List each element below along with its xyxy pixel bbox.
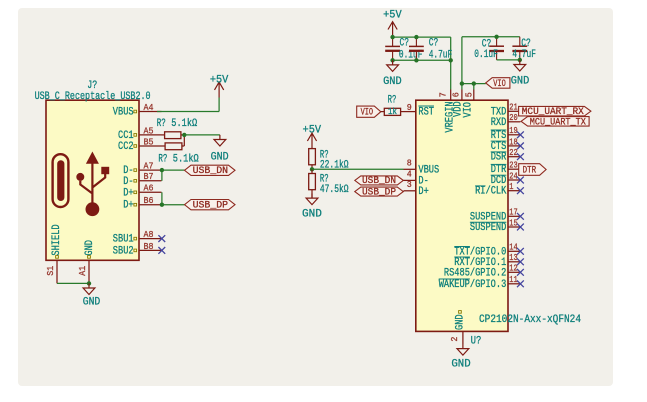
svg-text:A7: A7 <box>144 161 154 172</box>
connector J1 body <box>46 100 139 260</box>
wire +5V top rail left <box>393 36 451 38</box>
no-connect pin 18 <box>517 143 524 150</box>
svg-text:18: 18 <box>509 136 518 147</box>
svg-text:A5: A5 <box>144 125 154 136</box>
pin 15 SUSPEND of U1 <box>508 226 520 228</box>
pin S1 SHIELD of J1 <box>56 260 58 283</box>
pin B5 CC2 of J1 <box>139 145 162 147</box>
wire D- pins join <box>161 170 163 181</box>
svg-text:DTR: DTR <box>523 164 537 176</box>
svg-text:A1: A1 <box>77 266 88 276</box>
svg-text:WAKEUP/GPIO.3: WAKEUP/GPIO.3 <box>439 279 507 291</box>
pin A4 VBUS of J1 <box>139 111 162 113</box>
pin 7 VREGIN of U1 <box>450 90 452 101</box>
wire D- to label <box>162 169 185 171</box>
no-connect pin 22 <box>517 153 524 160</box>
pin 13 RXT/GPIO.1 of U1 <box>508 261 520 263</box>
global label USB_DP at chip <box>355 187 404 196</box>
no-connect pin 11 <box>517 280 524 287</box>
power +5V at capacitors <box>388 22 397 37</box>
svg-text:RST: RST <box>418 107 434 119</box>
pin 24 DCD of U1 <box>508 179 520 181</box>
svg-text:SBU2: SBU2 <box>113 245 134 257</box>
wire divider to VBUS pin 8 <box>312 168 404 170</box>
no-connect SBU1 <box>158 235 165 242</box>
svg-text:B7: B7 <box>144 171 154 182</box>
svg-text:DSR: DSR <box>491 152 507 164</box>
global label USB_DN at chip <box>355 176 404 185</box>
wire CC junction to gnd <box>184 134 220 136</box>
ground at CC resistors <box>214 135 226 146</box>
svg-text:4.7uF: 4.7uF <box>512 49 536 61</box>
svg-text:6: 6 <box>451 92 462 97</box>
junction C2 top <box>414 35 418 39</box>
svg-text:47.5kΩ: 47.5kΩ <box>320 184 349 196</box>
svg-text:VBUS: VBUS <box>113 107 134 119</box>
no-connect pin 17 <box>517 213 524 220</box>
global label USB_DP at connector <box>185 200 236 210</box>
svg-text:B5: B5 <box>144 136 154 147</box>
svg-text:15: 15 <box>509 217 518 228</box>
svg-text:GND: GND <box>83 297 101 309</box>
wire VIO net <box>462 83 486 85</box>
no-connect pin 15 <box>517 224 524 231</box>
svg-text:D+: D+ <box>123 187 133 199</box>
ground under chip <box>457 344 469 355</box>
svg-text:22: 22 <box>509 147 518 158</box>
svg-text:7: 7 <box>437 92 448 97</box>
pin B8 SBU2 of J1 <box>139 249 162 251</box>
pin 1 RI/CLK of U1 <box>508 190 520 192</box>
svg-text:GND: GND <box>511 75 530 87</box>
capacitor C2 4.7uF <box>415 37 417 46</box>
power +5V at connector <box>215 82 224 97</box>
pin 11 WAKEUP/GPIO.3 of U1 <box>508 283 520 285</box>
ground under C1 <box>387 60 399 71</box>
junction divider <box>310 167 314 171</box>
svg-text:B6: B6 <box>144 195 154 206</box>
svg-text:S1: S1 <box>45 266 56 276</box>
global label USB_DN at connector <box>185 165 236 175</box>
pin 9 RST of U1 <box>404 111 416 113</box>
wire bottom rail left caps <box>393 59 451 61</box>
wire bottom rail right caps <box>497 59 520 61</box>
svg-text:U?: U? <box>471 335 482 347</box>
svg-text:20: 20 <box>509 112 518 123</box>
pin 12 RS485/GPIO.2 of U1 <box>508 271 520 273</box>
junction CC <box>182 133 186 137</box>
svg-text:GND: GND <box>451 358 471 370</box>
svg-text:3: 3 <box>407 179 412 190</box>
junction D- <box>160 168 164 172</box>
global label MCU_UART_TX <box>521 117 589 127</box>
svg-text:5.1kΩ: 5.1kΩ <box>171 118 197 130</box>
svg-text:8: 8 <box>407 157 412 168</box>
svg-text:USB_DN: USB_DN <box>362 176 396 187</box>
pin 5 VIO of U1 <box>473 90 475 101</box>
capacitor C4 4.7uF <box>519 37 521 46</box>
no-connect pin 13 <box>517 258 524 265</box>
svg-text:RXD: RXD <box>491 117 507 129</box>
svg-text:GND: GND <box>302 209 322 221</box>
pin B7 D- of J1 <box>139 180 162 182</box>
global label MCU_UART_RX <box>519 106 591 116</box>
USB-C capsule inner <box>57 160 64 201</box>
junction D+ <box>160 203 164 207</box>
pin A8 SBU1 of J1 <box>139 238 162 240</box>
svg-text:USB_DP: USB_DP <box>362 187 396 198</box>
svg-text:A6: A6 <box>144 183 154 194</box>
global label VIO at RST <box>357 106 381 117</box>
svg-text:13: 13 <box>509 252 518 263</box>
svg-text:SUSPEND: SUSPEND <box>470 222 507 234</box>
wire D+ pins join <box>161 192 163 204</box>
svg-text:4: 4 <box>407 169 412 180</box>
svg-text:USB_DN: USB_DN <box>193 165 229 177</box>
wire R2 to junction <box>182 145 184 147</box>
svg-text:5.1kΩ: 5.1kΩ <box>173 154 199 166</box>
svg-text:A8: A8 <box>144 229 154 240</box>
pin 14 TXT/GPIO.0 of U1 <box>508 250 520 252</box>
pin 23 DTR of U1 <box>508 168 520 170</box>
svg-text:11: 11 <box>509 274 518 285</box>
svg-text:2: 2 <box>449 336 460 341</box>
svg-text:5: 5 <box>464 92 475 97</box>
pin 20 RXD of U1 <box>508 121 520 123</box>
pin A6 D+ of J1 <box>139 191 162 193</box>
wire top rail right caps <box>462 36 520 38</box>
pin B6 D+ of J1 <box>139 204 162 206</box>
pin 4 D- of U1 <box>404 179 416 181</box>
svg-text:R?: R? <box>158 154 167 166</box>
no-connect pin 12 <box>517 269 524 276</box>
wire D+ to label <box>162 204 185 206</box>
svg-text:12: 12 <box>509 263 518 274</box>
svg-text:C?: C? <box>429 38 439 50</box>
svg-text:GND: GND <box>211 152 229 164</box>
svg-text:19: 19 <box>509 125 518 136</box>
svg-text:17: 17 <box>509 207 517 218</box>
svg-text:D+: D+ <box>418 186 428 198</box>
svg-text:GND: GND <box>455 314 467 330</box>
svg-text:RS485/GPIO.2: RS485/GPIO.2 <box>444 267 506 279</box>
USB-C capsule outline <box>53 154 69 207</box>
svg-text:B8: B8 <box>144 241 154 252</box>
no-connect pin 19 <box>517 131 524 138</box>
junction C3 top <box>494 35 498 39</box>
svg-text:CP2102N-Axx-xQFN24: CP2102N-Axx-xQFN24 <box>479 314 581 326</box>
svg-text:SBU1: SBU1 <box>113 234 134 246</box>
wire shield to gnd <box>57 282 89 284</box>
wire VBUS to +5V <box>157 111 219 113</box>
USB trident logo <box>76 152 109 217</box>
svg-text:SHIELD: SHIELD <box>51 224 63 256</box>
pin A1 GND of J1 <box>88 260 90 283</box>
svg-text:1k: 1k <box>388 107 397 117</box>
junction C1 bottom <box>390 58 394 62</box>
IC U1 CP2102N body <box>416 100 508 331</box>
pin 6 VDD of U1 <box>461 90 463 101</box>
junction VIO pin <box>472 81 476 85</box>
svg-text:24: 24 <box>509 170 518 181</box>
ground under divider <box>306 194 318 205</box>
ground under connector <box>83 283 95 294</box>
pin 8 VBUS of U1 <box>404 168 416 170</box>
capacitor C3 0.1uF <box>496 37 498 46</box>
junction C1 top <box>390 35 394 39</box>
svg-text:R?: R? <box>157 118 166 130</box>
svg-text:+5V: +5V <box>383 10 402 22</box>
pin 18 CTS of U1 <box>508 145 520 147</box>
junction VDD VIO <box>460 81 464 85</box>
junction C2 bottom <box>414 58 418 62</box>
global label DTR <box>519 164 546 176</box>
no-connect SBU2 <box>158 247 165 254</box>
svg-text:GND: GND <box>84 240 96 256</box>
svg-text:D+: D+ <box>123 200 133 212</box>
svg-text:+5V: +5V <box>210 74 229 86</box>
svg-text:14: 14 <box>509 242 518 253</box>
svg-text:A4: A4 <box>144 102 154 113</box>
no-connect pin 1 <box>517 187 524 194</box>
svg-text:MCU_UART_TX: MCU_UART_TX <box>530 116 587 128</box>
junction C4 bottom <box>518 58 522 62</box>
no-connect pin 24 <box>517 177 524 184</box>
pin A5 CC1 of J1 <box>139 134 162 136</box>
svg-text:9: 9 <box>407 102 412 113</box>
pin 2 GND of U1 <box>462 331 464 344</box>
ground under C4 <box>514 60 526 71</box>
svg-text:USB_C_Receptacle_USB2.0: USB_C_Receptacle_USB2.0 <box>35 91 151 103</box>
junction VREGIN rail <box>449 58 453 62</box>
svg-text:0.1uF: 0.1uF <box>474 49 498 61</box>
svg-text:21: 21 <box>509 102 518 113</box>
svg-text:1: 1 <box>509 181 513 192</box>
svg-text:C?: C? <box>400 38 410 50</box>
pin 22 DSR of U1 <box>508 156 520 158</box>
svg-text:RI/CLK: RI/CLK <box>475 186 507 198</box>
capacitor C1 0.1uF <box>392 37 394 46</box>
pin 3 D+ of U1 <box>404 190 416 192</box>
pin 19 RTS of U1 <box>508 134 520 136</box>
pin A7 D- of J1 <box>139 169 162 171</box>
pin 17 SUSPEND of U1 <box>508 215 520 217</box>
global label VIO at caps <box>486 78 510 89</box>
junction shield gnd <box>87 281 91 285</box>
svg-text:GND: GND <box>383 76 402 88</box>
svg-text:D-: D- <box>123 176 133 188</box>
pin 21 TXD of U1 <box>508 110 520 112</box>
svg-text:VIO: VIO <box>462 102 474 118</box>
no-connect pin 14 <box>517 248 524 255</box>
svg-text:R?: R? <box>388 94 397 106</box>
svg-text:23: 23 <box>509 160 518 171</box>
svg-text:CC2: CC2 <box>118 141 134 153</box>
svg-text:VIO: VIO <box>361 107 374 119</box>
svg-text:USB_DP: USB_DP <box>193 200 229 212</box>
svg-text:VIO: VIO <box>493 78 506 90</box>
